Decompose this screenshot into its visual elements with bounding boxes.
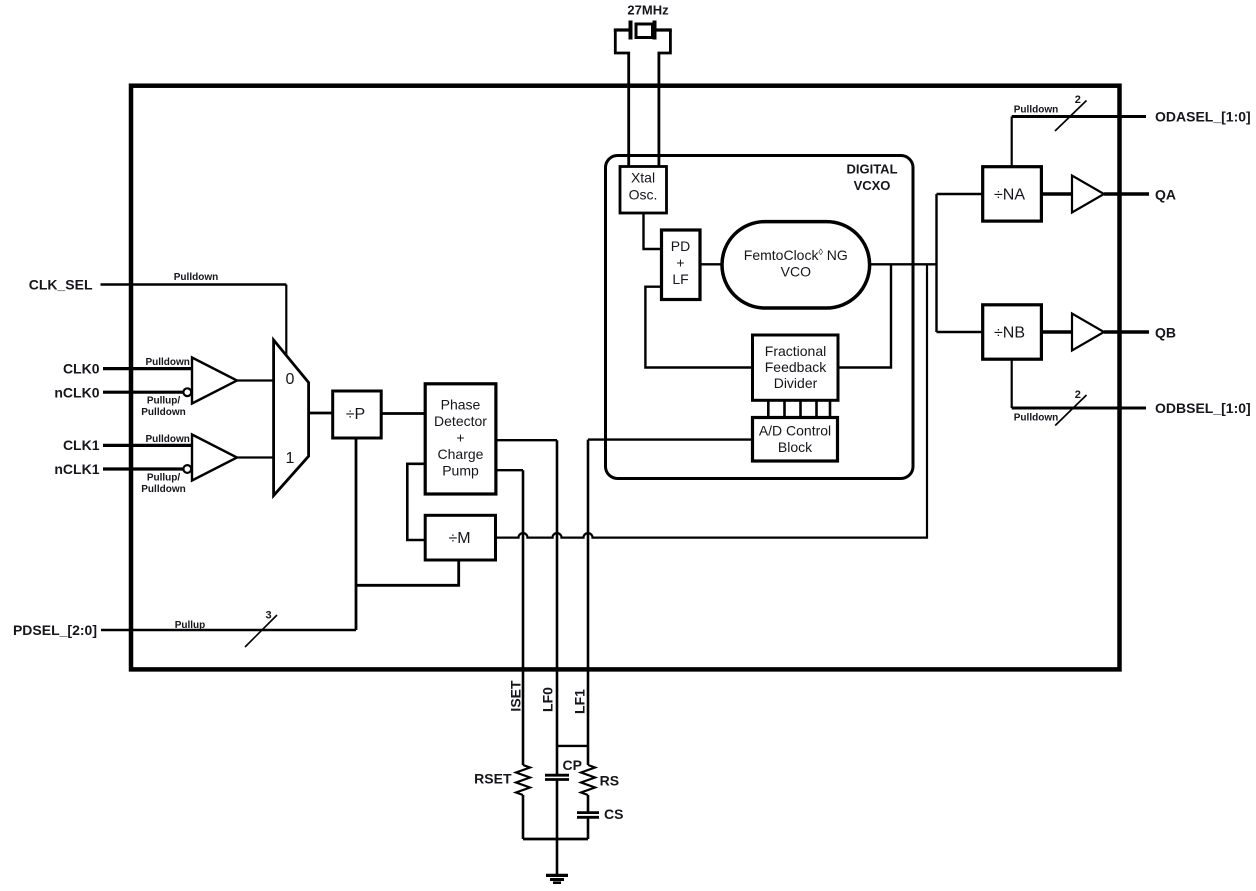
block Xtal Osc <box>620 167 667 214</box>
svg-text:Fractional: Fractional <box>765 343 826 359</box>
block DIGITAL VCXO <box>606 156 914 479</box>
wire buffer1 to mux <box>237 456 274 458</box>
pin line LF0 <box>556 440 559 775</box>
label pullup/pulldown nCLK1 <box>141 473 185 496</box>
svg-text:+: + <box>676 255 684 271</box>
buffer QA <box>1072 176 1104 213</box>
svg-text:QB: QB <box>1155 324 1176 340</box>
block phase detector + charge pump <box>425 384 496 494</box>
bus width 2 slash ODBSEL <box>1055 389 1086 425</box>
wire feedback divider to PD+LF <box>645 287 752 368</box>
ground <box>546 875 568 882</box>
wire CS bottom <box>587 817 590 839</box>
wire RS to CS <box>587 795 590 812</box>
wire RSET bottom <box>522 795 525 839</box>
wire ODASEL <box>1012 117 1146 167</box>
wire NA to QA buffer <box>1041 192 1072 195</box>
svg-text:RS: RS <box>600 773 619 789</box>
wire crystal left leg <box>615 30 628 167</box>
mux <box>274 340 309 496</box>
resistor RSET <box>516 765 530 795</box>
block fractional feedback divider <box>753 335 839 400</box>
wire nCLK1 <box>103 467 183 470</box>
svg-text:LF1: LF1 <box>572 689 588 714</box>
svg-text:÷NB: ÷NB <box>994 325 1025 342</box>
bus width 2 slash ODASEL <box>1055 94 1087 131</box>
svg-text:PDSEL_[2:0]: PDSEL_[2:0] <box>13 622 97 638</box>
wire CLK1 <box>103 444 192 447</box>
wire divider P to PDSEL net <box>355 438 358 630</box>
svg-text:Pullup/: Pullup/ <box>147 396 181 407</box>
buffer input 1 <box>192 435 237 481</box>
svg-text:÷P: ÷P <box>346 406 365 423</box>
block divider NA <box>983 167 1042 221</box>
svg-text:ODASEL_[1:0]: ODASEL_[1:0] <box>1155 109 1251 125</box>
block A/D control block <box>753 418 838 462</box>
pin line ISET <box>522 470 525 765</box>
svg-text:Block: Block <box>778 439 813 455</box>
svg-text:Pulldown: Pulldown <box>1014 413 1058 424</box>
svg-text:Detector: Detector <box>434 413 487 429</box>
svg-text:2: 2 <box>1075 94 1081 106</box>
wire QB output <box>1104 330 1149 333</box>
svg-text:LF0: LF0 <box>540 687 556 712</box>
svg-text:Charge: Charge <box>438 446 484 462</box>
svg-text:DIGITAL: DIGITAL <box>846 162 897 177</box>
svg-text:Osc.: Osc. <box>629 187 658 203</box>
svg-text:Pullup: Pullup <box>175 620 206 631</box>
svg-text:Feedback: Feedback <box>765 359 827 375</box>
inversion bubble buffer 0 <box>183 388 191 396</box>
pin line LF1 <box>587 440 590 765</box>
svg-text:Pulldown: Pulldown <box>1014 105 1058 116</box>
svg-text:ODBSEL_[1:0]: ODBSEL_[1:0] <box>1155 400 1251 416</box>
svg-text:VCXO: VCXO <box>854 178 891 193</box>
svg-text:FemtoClock◊ NG: FemtoClock◊ NG <box>744 247 848 263</box>
block divider P <box>333 391 382 438</box>
wire LF0 to LF1 junction <box>557 745 588 747</box>
block divider M <box>425 515 495 560</box>
wire CLK_SEL <box>101 285 287 356</box>
svg-text:QA: QA <box>1155 186 1176 202</box>
svg-text:Pulldown: Pulldown <box>141 484 185 495</box>
wire divider M output to VCO net with hops <box>496 264 928 537</box>
block PD+LF <box>662 230 701 300</box>
wire phase detector to LF0 <box>496 439 557 441</box>
wire LF1 to A/D control <box>588 438 753 440</box>
svg-text:CLK1: CLK1 <box>63 437 100 453</box>
svg-text:+: + <box>456 430 464 446</box>
wire LF0 to ground <box>556 780 559 875</box>
svg-text:27MHz: 27MHz <box>627 3 669 18</box>
svg-text:÷M: ÷M <box>448 530 470 547</box>
wire QA output <box>1104 192 1149 195</box>
svg-text:A/D Control: A/D Control <box>759 423 831 439</box>
svg-text:Pulldown: Pulldown <box>141 407 185 418</box>
wire ODBSEL <box>1012 359 1146 408</box>
wire NB to QB buffer <box>1041 330 1072 333</box>
oscillator U1 FemtoClock NG VCO <box>722 222 870 308</box>
svg-text:2: 2 <box>1075 389 1081 401</box>
svg-text:CS: CS <box>604 806 623 822</box>
svg-text:÷NA: ÷NA <box>994 187 1025 204</box>
chip boundary <box>131 86 1120 670</box>
svg-text:Pullup/: Pullup/ <box>147 473 181 484</box>
svg-text:Divider: Divider <box>774 375 818 391</box>
wire VCO to output dividers <box>937 194 983 332</box>
svg-text:Xtal: Xtal <box>631 170 655 186</box>
svg-text:1: 1 <box>286 450 295 467</box>
svg-text:CLK0: CLK0 <box>63 360 100 376</box>
svg-text:nCLK1: nCLK1 <box>54 461 99 477</box>
svg-text:nCLK0: nCLK0 <box>54 384 99 400</box>
svg-text:Pump: Pump <box>442 463 479 479</box>
buffer QB <box>1072 314 1104 351</box>
wire phase detector to divider M loop <box>407 464 425 540</box>
svg-text:LF: LF <box>672 271 688 287</box>
wire phase detector to ISET <box>496 469 523 471</box>
svg-text:Pulldown: Pulldown <box>174 272 218 283</box>
svg-text:CLK_SEL: CLK_SEL <box>29 276 93 292</box>
wire PDSEL branch to divider M <box>356 560 459 585</box>
svg-text:0: 0 <box>286 371 295 388</box>
block divider NB <box>983 305 1042 359</box>
svg-text:CP: CP <box>563 757 582 773</box>
svg-text:ISET: ISET <box>508 680 524 712</box>
wire CLK0 <box>103 367 192 370</box>
wire mux to divider P <box>309 412 333 415</box>
svg-text:Pulldown: Pulldown <box>145 434 189 445</box>
wire nCLK0 <box>103 391 183 394</box>
wire bottom ground net <box>523 838 588 841</box>
crystal Y1 <box>614 21 672 40</box>
resistor RS <box>581 765 595 795</box>
wire PD+LF to VCO <box>700 263 722 265</box>
capacitor CP <box>545 775 569 779</box>
wire crystal right leg <box>659 30 671 167</box>
label pullup/pulldown nCLK0 <box>141 396 185 419</box>
bus feedback divider to A/D control <box>768 401 830 418</box>
bus width 3 slash PDSEL <box>245 610 277 648</box>
svg-text:Pulldown: Pulldown <box>145 357 189 368</box>
wire VCO to fractional feedback divider <box>839 264 892 367</box>
svg-text:VCO: VCO <box>781 264 811 280</box>
svg-text:PD: PD <box>671 238 690 254</box>
svg-text:3: 3 <box>265 610 271 622</box>
svg-text:RSET: RSET <box>474 771 512 787</box>
buffer input 0 <box>192 358 237 404</box>
svg-text:Phase: Phase <box>441 397 481 413</box>
wire VCO output <box>870 263 937 265</box>
capacitor CS <box>577 813 599 818</box>
inversion bubble buffer 1 <box>183 465 191 473</box>
wire buffer0 to mux <box>237 379 274 381</box>
wire divider P to phase detector <box>381 412 425 415</box>
wire PDSEL <box>101 629 356 632</box>
wire Xtal Osc to PD+LF <box>644 213 662 249</box>
